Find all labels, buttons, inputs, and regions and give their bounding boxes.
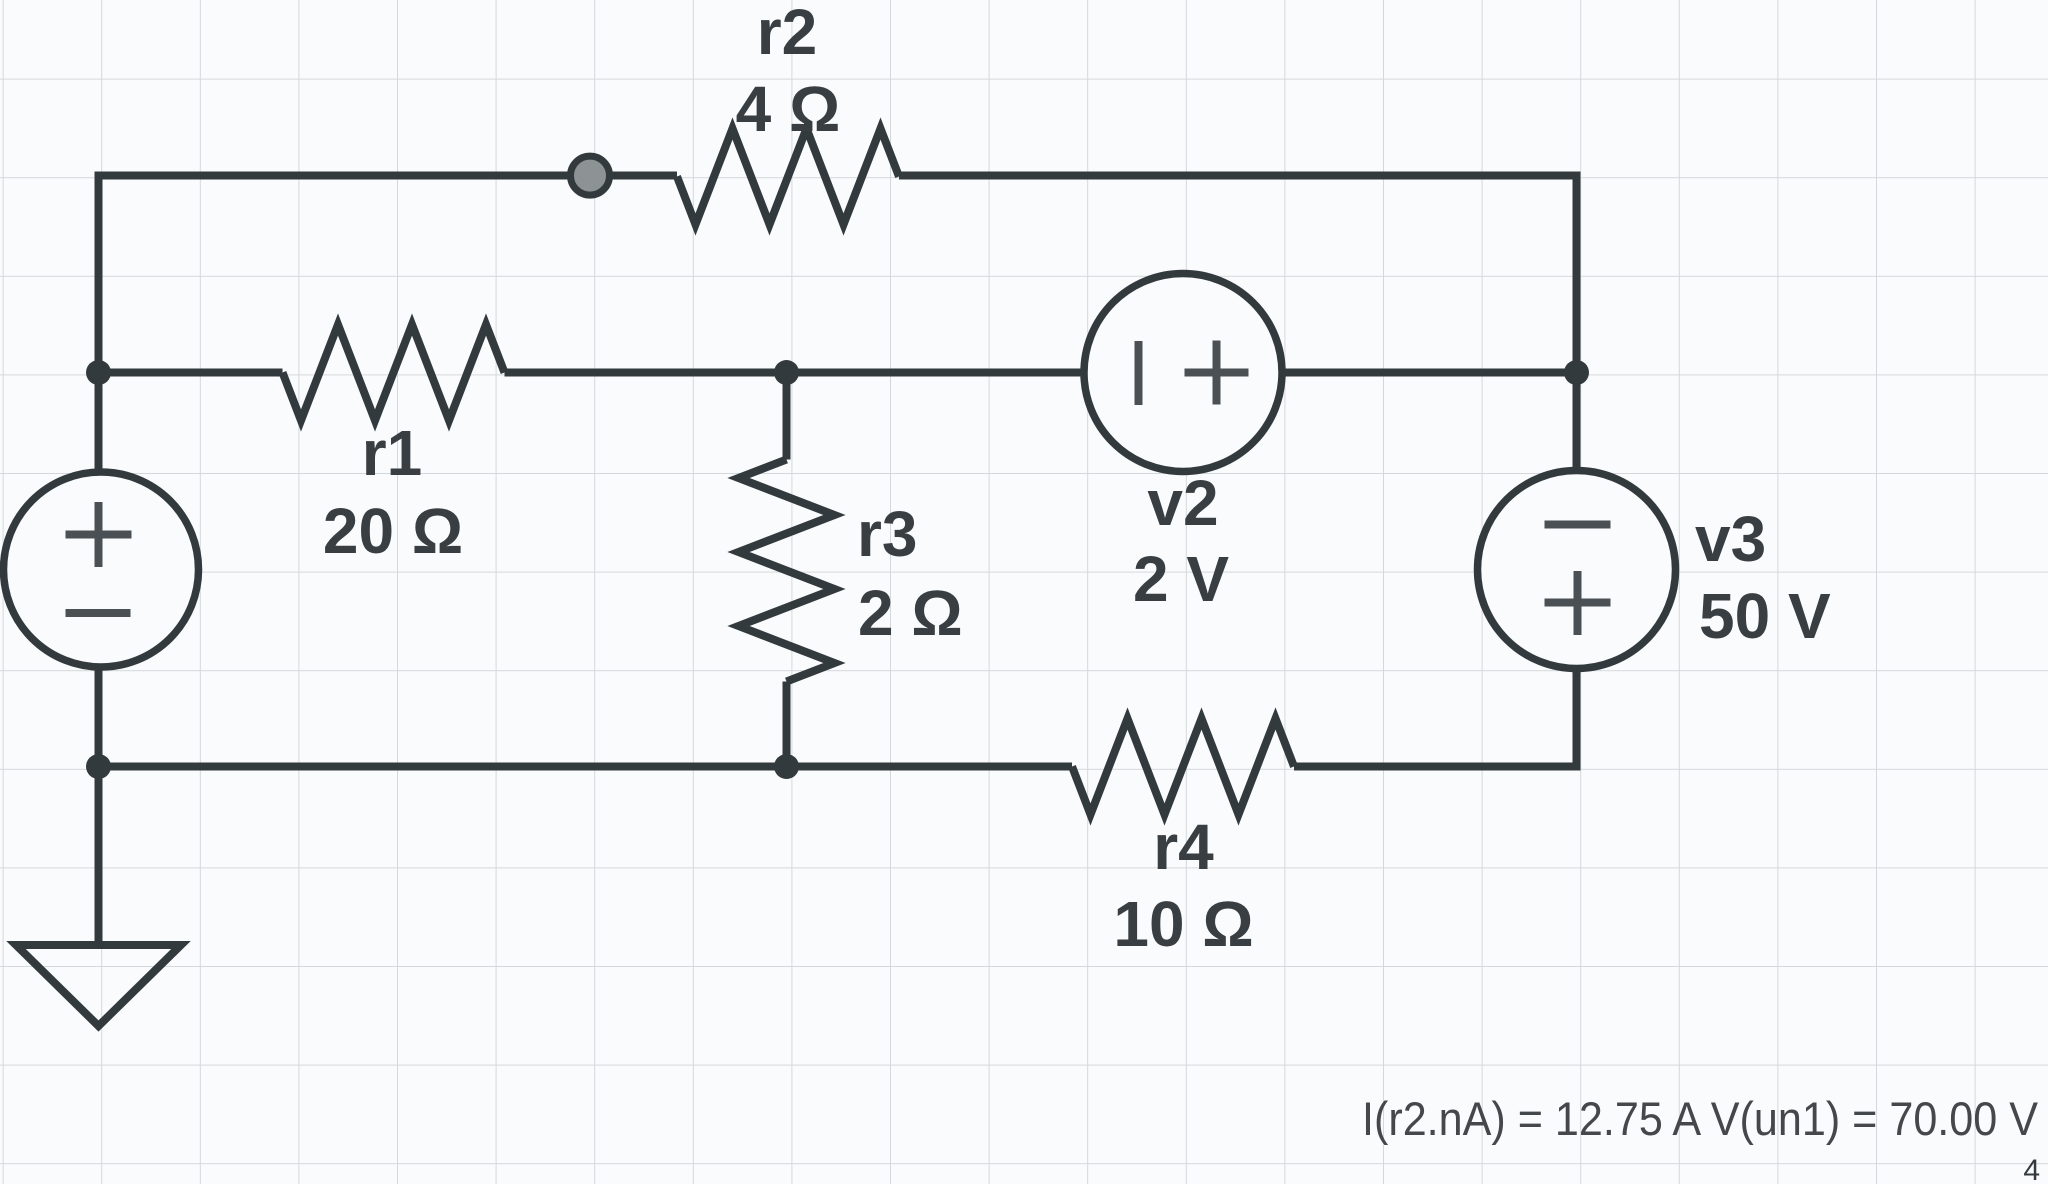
wire top rail [99,176,1577,473]
wire middle rail [99,369,1577,377]
wire r3 leads [783,373,791,767]
resistor r1 [283,325,505,421]
junction node right-middle [1564,360,1589,385]
V1 plus sign [66,502,132,567]
svg-text:r1: r1 [362,417,423,489]
svg-text:r4: r4 [1153,811,1214,883]
v2 minus bar [1135,341,1143,405]
wire bottom rail [99,763,1073,771]
wire right rail [1294,669,1577,767]
svg-text:r2: r2 [757,0,818,68]
voltage source v3 circle [1478,471,1676,669]
wire left rail [95,667,103,945]
junction node r3 bottom [774,754,799,779]
resistor r2 [677,129,899,225]
svg-text:50 V: 50 V [1699,580,1831,652]
svg-text:10 Ω: 10 Ω [1113,888,1253,960]
voltage source v2 circle [1084,274,1282,472]
node un1 (gray open node) [571,156,610,195]
v2 plus sign [1185,341,1249,405]
svg-text:2 V: 2 V [1133,543,1229,615]
resistor r4 [1072,719,1294,815]
svg-text:4 Ω: 4 Ω [736,73,841,145]
svg-text:I(r2.nA) = 12.75 A V(un1) = 70: I(r2.nA) = 12.75 A V(un1) = 70.00 V [1362,1092,2039,1145]
junction node r3 top [774,360,799,385]
svg-text:4: 4 [2023,1154,2040,1184]
svg-text:r3: r3 [857,498,918,570]
ground [16,945,181,1026]
svg-text:20 Ω: 20 Ω [323,495,463,567]
svg-text:v2: v2 [1147,467,1218,539]
svg-text:v3: v3 [1695,503,1766,575]
V1 minus sign [66,609,131,617]
voltage source V1 circle [4,472,199,667]
svg-text:2 Ω: 2 Ω [858,577,963,649]
v3 plus sign [1545,571,1611,635]
v3 minus sign [1545,521,1611,529]
junction node left-middle [86,360,111,385]
resistor r3 [739,460,835,682]
junction node left-bottom [86,754,111,779]
